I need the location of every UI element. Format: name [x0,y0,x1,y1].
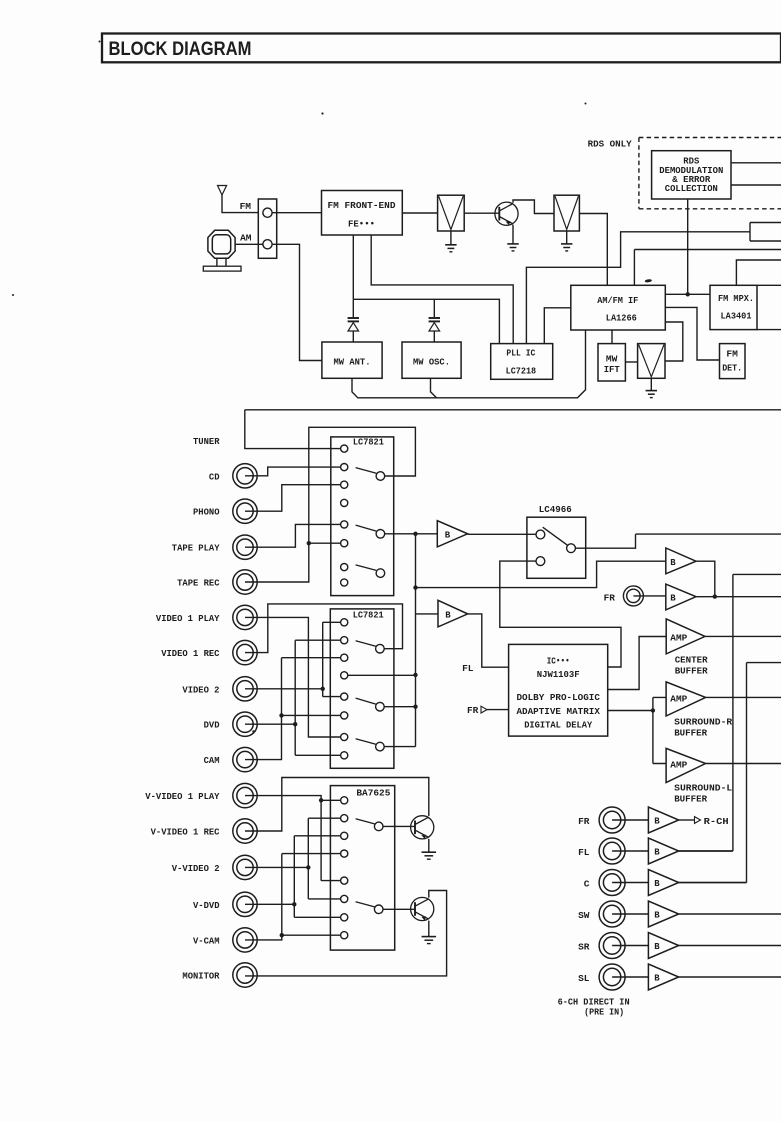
svg-text:CENTER: CENTER [675,654,708,665]
svg-text:TAPE REC: TAPE REC [177,578,220,589]
svg-text:BUFFER: BUFFER [674,793,707,804]
svg-text:R-CH: R-CH [704,816,729,827]
svg-text:SR: SR [578,941,590,952]
svg-text:DET.: DET. [722,363,742,374]
svg-text:C: C [584,878,590,889]
svg-text:FR: FR [578,816,590,827]
svg-text:TAPE PLAY: TAPE PLAY [172,543,220,554]
svg-text:MONITOR: MONITOR [182,971,219,982]
svg-text:MW ANT.: MW ANT. [334,357,371,368]
svg-text:TUNER: TUNER [193,436,220,447]
svg-text:V-VIDEO 1 REC: V-VIDEO 1 REC [151,827,220,838]
svg-text:LC7218: LC7218 [506,366,537,377]
svg-text:LC4966: LC4966 [539,504,572,515]
svg-text:FM: FM [240,201,252,212]
svg-text:B: B [670,593,676,603]
svg-text:B: B [445,531,451,541]
svg-text:V-CAM: V-CAM [193,935,220,946]
svg-text:SURROUND-L: SURROUND-L [674,782,732,793]
svg-text:V-VIDEO 1 PLAY: V-VIDEO 1 PLAY [145,791,219,802]
svg-text:PLL IC: PLL IC [506,348,535,359]
svg-text:B: B [654,879,660,889]
svg-text:LA3401: LA3401 [721,311,752,322]
svg-text:FE•••: FE••• [348,219,375,230]
svg-text:B: B [445,611,451,621]
svg-text:B: B [654,817,660,827]
svg-text:B: B [654,848,660,858]
svg-text:B: B [654,942,660,952]
svg-text:ADAPTIVE MATRIX: ADAPTIVE MATRIX [516,706,600,717]
svg-text:FR: FR [604,592,616,603]
svg-text:FM MPX.: FM MPX. [718,293,754,304]
svg-text:V-DVD: V-DVD [193,900,220,911]
svg-text:COLLECTION: COLLECTION [665,183,718,194]
svg-text:VIDEO 2: VIDEO 2 [182,684,219,695]
svg-text:MW OSC.: MW OSC. [413,357,450,368]
svg-text:B: B [654,911,660,921]
svg-text:FR: FR [467,705,479,716]
svg-text:SL: SL [578,973,590,984]
svg-text:CAM: CAM [204,755,220,766]
svg-text:AMP: AMP [670,759,687,770]
svg-text:FL: FL [462,663,474,674]
svg-text:BUFFER: BUFFER [674,728,707,739]
svg-text:FM: FM [726,349,738,360]
svg-text:IC•••: IC••• [547,656,570,667]
svg-text:NJW1103F: NJW1103F [537,669,580,680]
svg-text:AMP: AMP [670,632,687,643]
svg-text:FM FRONT-END: FM FRONT-END [328,200,396,211]
svg-text:B: B [654,974,660,984]
svg-text:(PRE IN): (PRE IN) [584,1007,624,1018]
svg-text:SURROUND-R: SURROUND-R [674,717,732,728]
svg-text:RDS ONLY: RDS ONLY [588,139,632,150]
svg-text:MW: MW [606,354,618,365]
svg-text:DVD: DVD [204,720,220,731]
svg-text:FL: FL [578,847,590,858]
svg-text:B: B [670,558,676,568]
svg-text:CD: CD [209,471,220,482]
svg-text:BUFFER: BUFFER [675,665,708,676]
svg-text:V-VIDEO 2: V-VIDEO 2 [172,863,220,874]
svg-text:VIDEO 1 PLAY: VIDEO 1 PLAY [156,613,220,624]
svg-text:LC7821: LC7821 [353,609,384,620]
svg-text:VIDEO 1 REC: VIDEO 1 REC [161,648,220,659]
svg-text:AMP: AMP [670,693,687,704]
svg-text:LC7821: LC7821 [353,437,384,448]
svg-text:SW: SW [578,910,590,921]
svg-text:IFT: IFT [604,364,620,375]
svg-text:DIGITAL DELAY: DIGITAL DELAY [524,720,592,731]
svg-text:AM: AM [240,233,252,244]
svg-text:DOLBY PRO-LOGIC: DOLBY PRO-LOGIC [516,692,600,703]
svg-text:PHONO: PHONO [193,507,220,518]
svg-text:AM/FM IF: AM/FM IF [597,295,638,306]
svg-text:LA1266: LA1266 [606,313,637,324]
svg-text:BA7625: BA7625 [356,788,390,799]
svg-text:BLOCK DIAGRAM: BLOCK DIAGRAM [109,39,252,60]
